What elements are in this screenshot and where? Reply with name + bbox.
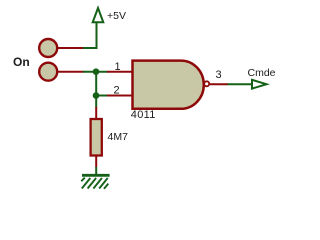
connector pin J1 (On, top) xyxy=(39,39,83,57)
svg-text:3: 3 xyxy=(216,69,222,81)
svg-text:Cmde: Cmde xyxy=(248,67,276,79)
connector pin J2 (On, bottom) xyxy=(39,63,83,81)
NAND gate U1 body (4011) xyxy=(133,61,204,109)
svg-text:+5V: +5V xyxy=(107,10,126,22)
gate U1 pin 1 xyxy=(107,71,133,73)
wire: node A down to resistor xyxy=(95,72,97,108)
wire: resistor to ground xyxy=(95,167,97,175)
wire: node B to gate pin 2 xyxy=(96,95,107,97)
wire: pin 3 to Cmde terminal xyxy=(228,83,253,85)
resistor R1 xyxy=(91,107,102,167)
gate U1 pin 2 xyxy=(107,95,133,97)
junction node A xyxy=(93,68,100,75)
junction node B xyxy=(93,92,100,99)
svg-text:On: On xyxy=(13,55,30,69)
inversion bubble xyxy=(204,81,209,86)
ground xyxy=(81,175,109,189)
svg-text:1: 1 xyxy=(115,61,121,73)
power flag +5V xyxy=(93,8,104,49)
output terminal Cmde xyxy=(252,80,267,89)
svg-text:4011: 4011 xyxy=(131,109,156,121)
wire: J1 to +5V corner xyxy=(83,47,98,49)
gate U1 pin 3 xyxy=(210,83,228,85)
wire: J2 to node A xyxy=(83,71,108,73)
svg-text:2: 2 xyxy=(114,84,120,96)
svg-text:4M7: 4M7 xyxy=(108,131,129,143)
